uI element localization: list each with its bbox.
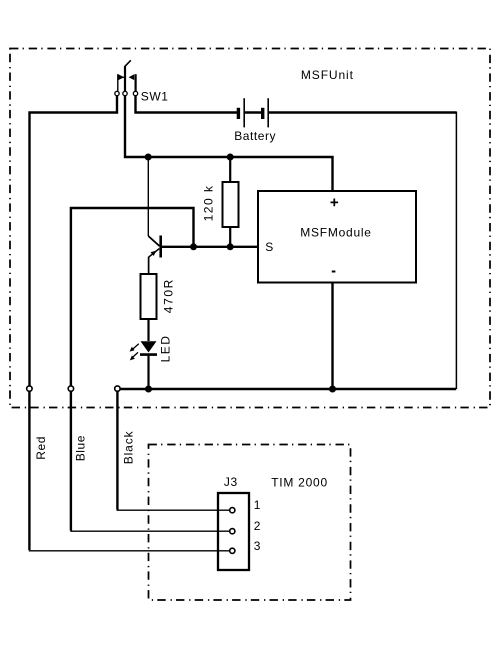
wire: SW1 left pole to Red terminal [30,96,118,387]
SW1 terminal circle left [115,91,119,95]
node Black terminal [115,386,120,391]
svg-text:470R: 470R [162,278,176,313]
svg-text:MSFModule: MSFModule [300,226,371,240]
svg-text:J3: J3 [224,475,238,489]
svg-text:3: 3 [254,539,261,553]
node Red terminal [27,386,32,391]
wire: 120k bottom [229,227,231,247]
svg-text:2: 2 [254,519,261,533]
junction 120k bottom [227,243,234,250]
TIM 2000 boundary box [149,445,351,601]
J3 pin 2 circle [230,529,235,534]
wire: Black to J3 pin 1 [116,391,118,510]
wire: SW1 common pole to MSFModule plus [125,96,333,191]
connector J3 [218,493,249,570]
SW1 terminal circle right [133,91,137,95]
wire: Red to J3 pin 3 [28,391,30,550]
J3 pin 3 circle [230,548,235,553]
wire: base to S input [161,246,258,248]
junction base node [190,243,197,250]
wire: Blue terminal to base [71,208,194,387]
wire: Blue to J3 pin 2 [70,391,72,531]
svg-text:Red: Red [34,436,48,460]
svg-text:LED: LED [158,335,172,363]
svg-text:Blue: Blue [74,435,88,461]
switch SW1 [118,60,136,91]
wire: 470R to LED [147,319,149,341]
resistor R1 120 k [223,182,239,227]
junction LED bus [145,386,152,393]
SW1 terminal circle middle [123,91,127,95]
node Blue terminal [68,386,73,391]
wire: bottom bus [120,388,456,390]
svg-text:TIM 2000: TIM 2000 [271,475,328,489]
wire: SW1 right pole to battery [136,96,238,113]
svg-text:120 k: 120 k [201,185,215,222]
svg-text:SW1: SW1 [141,90,169,104]
wire: emitter down [148,257,150,274]
resistor R2 470R [141,274,157,319]
MSFUnit boundary box [10,49,490,408]
wire: right side vertical [455,112,457,390]
MSF module U1 [258,191,416,283]
junction at 120k top [227,154,234,161]
wire: LED to ground bus [147,355,149,389]
wire: collector feed [147,157,149,236]
svg-text:MSFUnit: MSFUnit [301,68,354,82]
battery BT1 [238,98,268,127]
wire: battery to right side [269,111,457,113]
svg-text:S: S [265,240,274,254]
junction at collector feed [145,154,152,161]
wire: 120k top [229,157,231,183]
transistor Q1 [148,236,160,258]
label plus [331,199,339,207]
svg-text:1: 1 [254,498,261,512]
junction module bus [329,386,336,393]
J3 pin 1 circle [230,508,235,513]
wire: MSFModule minus to bus [331,283,333,390]
LED D1 [130,341,157,360]
svg-text:Battery: Battery [234,129,276,143]
label minus [332,271,336,273]
svg-text:Black: Black [122,430,136,464]
